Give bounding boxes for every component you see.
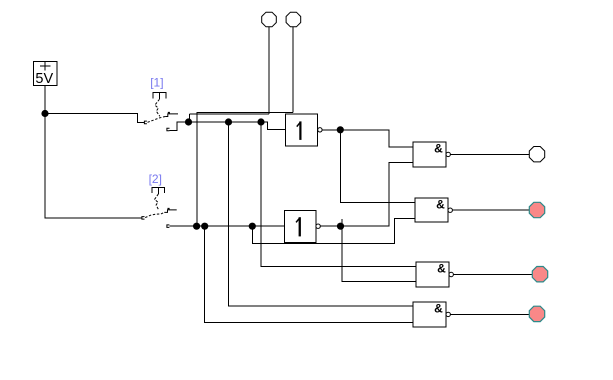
svg-text:&: &: [434, 142, 443, 156]
wire NAND U6 output to LED4: [450, 313, 528, 315]
wire probe 2 stem: [292, 27, 294, 113]
switch S1 movable blade (open): [148, 117, 166, 123]
switch S2 spring: [155, 194, 159, 211]
switch S1 push button cap: [153, 93, 166, 100]
wire probe 1 line to left probe stem: [190, 113, 269, 115]
NAND gate U4 output bubble: [448, 208, 452, 212]
switch S2 blade tip: [164, 208, 176, 212]
NAND gate U6 output bubble: [446, 312, 450, 316]
wire node B stub up to probe line: [189, 114, 191, 122]
LED D1 (off): [529, 147, 544, 162]
switch S1 blade tip: [165, 112, 178, 116]
battery V1 (5V source): [33, 61, 57, 85]
node C junction dot on S1 bus: [225, 118, 232, 125]
wire node E down to NAND gate U4 upper input: [340, 130, 415, 203]
wire node C down to NAND gate U6 upper input: [229, 122, 414, 306]
wire node I stub and drop to NAND gate U5 lower input: [342, 219, 416, 281]
node A junction dot: [41, 110, 48, 117]
wire switch S1 output to net S1 bus: [170, 122, 189, 131]
svg-text:&: &: [437, 262, 446, 276]
switch S2 movable blade (open): [145, 212, 164, 217]
NAND gate U3 body: [413, 142, 446, 167]
node D junction dot on S1 bus: [257, 118, 264, 125]
NAND gate U3 output bubble: [446, 152, 450, 156]
inverter U1 label 1: [296, 121, 301, 139]
switch S2 fixed left contact: [142, 217, 145, 220]
LED D2 (on): [529, 202, 544, 217]
switch S1 output contact: [167, 128, 170, 131]
wire inverter U2 output to node I: [320, 225, 340, 227]
inverter U1 output bubble: [318, 128, 322, 132]
probe indicator 1 (off): [262, 12, 277, 27]
wire switch S2 output to net S2 bus and inverter U2 input: [169, 225, 284, 227]
node H junction dot on S2 bus: [249, 223, 256, 230]
inverter U1 body: [286, 114, 318, 146]
wire NAND U3 output to LED1: [450, 153, 528, 155]
inverter U2 output bubble: [316, 224, 320, 228]
wire battery output down to node A: [44, 86, 46, 114]
wire NAND U4 output to LED2: [452, 209, 528, 211]
switch S1 spring: [155, 99, 160, 116]
probe indicator 2 (off): [286, 12, 301, 27]
NAND gate U4 body: [415, 198, 448, 222]
svg-text:[2]: [2]: [149, 172, 162, 186]
wire probe 1 stem: [268, 27, 270, 114]
NAND gate U5 body: [416, 262, 449, 287]
wire node I to NAND gate U3 lower input: [341, 162, 414, 226]
svg-text:[1]: [1]: [150, 75, 163, 89]
svg-text:5V: 5V: [35, 71, 53, 87]
svg-text:&: &: [434, 302, 443, 316]
node E junction dot (U1 output net): [337, 126, 344, 133]
node B junction dot (switch S1 output): [185, 118, 192, 125]
node F junction dot (probe 2 tap): [193, 223, 200, 230]
wire NAND U5 output to LED3: [453, 274, 531, 276]
switch S1 fixed left contact: [144, 121, 147, 124]
wire inverter U1 output to node E: [322, 129, 340, 131]
switch S2 push button cap: [152, 188, 165, 194]
wire net S1 bus to inverter U1 input: [189, 122, 286, 130]
inverter U2 body: [285, 210, 316, 242]
wire probe 2 line from vertical drop to right probe stem: [197, 112, 293, 226]
wire node A to switch S1 left terminal: [45, 114, 144, 123]
wire node E to NAND gate U3 upper input: [340, 130, 413, 147]
wire node A down to switch S2 left terminal: [45, 114, 142, 218]
LED D4 (on): [529, 306, 544, 321]
node G junction dot on S2 bus: [201, 223, 208, 230]
NAND gate U6 body: [413, 302, 446, 327]
switch S2 output contact: [167, 225, 170, 228]
wire node G down to NAND gate U6 lower input: [205, 226, 413, 322]
svg-text:&: &: [436, 198, 445, 212]
node I junction dot (U2 output net): [337, 223, 344, 230]
LED D3 (on): [532, 267, 547, 282]
wire node H to NAND gate U4 lower input: [252, 218, 415, 243]
wire node D down to NAND gate U5 upper input: [261, 122, 416, 267]
inverter U2 label 1: [296, 217, 301, 236]
NAND gate U5 output bubble: [449, 272, 453, 276]
